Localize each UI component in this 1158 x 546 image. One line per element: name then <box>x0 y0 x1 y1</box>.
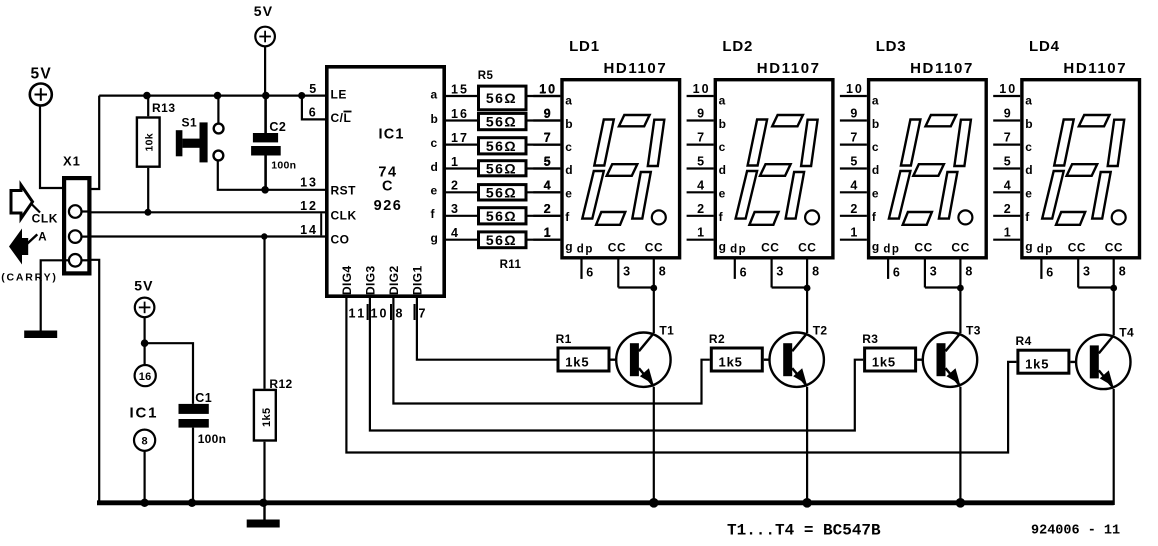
svg-text:b: b <box>431 112 439 126</box>
svg-text:R5: R5 <box>478 70 494 82</box>
svg-text:5V: 5V <box>31 66 52 83</box>
svg-text:R13: R13 <box>152 101 176 115</box>
svg-text:10k: 10k <box>144 133 156 151</box>
svg-text:56Ω: 56Ω <box>486 184 517 200</box>
svg-text:T1...T4 = BC547B: T1...T4 = BC547B <box>727 522 881 540</box>
svg-text:926: 926 <box>374 198 403 214</box>
svg-text:924006 - 11: 924006 - 11 <box>1031 524 1120 539</box>
svg-text:DIG1: DIG1 <box>410 265 424 295</box>
svg-text:c: c <box>431 136 438 150</box>
svg-text:T1: T1 <box>659 324 674 338</box>
svg-text:56Ω: 56Ω <box>486 138 517 154</box>
svg-text:f: f <box>431 207 436 221</box>
svg-text:LD1: LD1 <box>569 38 600 55</box>
svg-text:RST: RST <box>331 184 357 198</box>
svg-text:e: e <box>431 184 438 198</box>
svg-text:C: C <box>382 179 394 195</box>
svg-text:A: A <box>38 232 47 244</box>
svg-text:CO: CO <box>331 233 350 247</box>
svg-text:T2: T2 <box>813 324 828 338</box>
svg-text:8: 8 <box>396 307 404 321</box>
svg-text:10: 10 <box>371 307 389 321</box>
svg-text:R11: R11 <box>500 259 522 271</box>
svg-text:T4: T4 <box>1119 326 1134 340</box>
svg-text:R3: R3 <box>862 332 878 346</box>
svg-text:100n: 100n <box>271 160 296 172</box>
svg-text:S1: S1 <box>182 116 198 130</box>
svg-text:R4: R4 <box>1016 334 1032 348</box>
svg-text:5V: 5V <box>134 278 154 294</box>
svg-text:5: 5 <box>309 82 317 96</box>
svg-text:DIG3: DIG3 <box>363 265 377 295</box>
svg-text:13: 13 <box>300 176 318 190</box>
svg-text:16: 16 <box>139 371 152 383</box>
svg-text:1k5: 1k5 <box>261 407 273 427</box>
svg-text:IC1: IC1 <box>130 405 159 422</box>
svg-text:56Ω: 56Ω <box>486 114 517 130</box>
svg-text:12: 12 <box>300 199 318 213</box>
svg-text:a: a <box>431 87 438 101</box>
svg-text:56Ω: 56Ω <box>486 232 517 248</box>
svg-text:CLK: CLK <box>331 209 357 223</box>
svg-text:17: 17 <box>451 131 469 145</box>
svg-text:R2: R2 <box>709 332 725 346</box>
svg-text:CLK: CLK <box>32 212 58 226</box>
svg-text:X1: X1 <box>63 154 81 169</box>
svg-text:LD3: LD3 <box>876 38 907 55</box>
svg-text:56Ω: 56Ω <box>486 208 517 224</box>
svg-text:LE: LE <box>331 88 347 102</box>
svg-text:8: 8 <box>142 436 148 448</box>
svg-text:T3: T3 <box>966 324 981 338</box>
svg-text:R12: R12 <box>269 377 292 391</box>
svg-text:100n: 100n <box>198 432 227 446</box>
svg-text:16: 16 <box>451 107 469 121</box>
svg-text:IC1: IC1 <box>379 127 405 143</box>
svg-text:56Ω: 56Ω <box>486 160 517 176</box>
svg-text:g: g <box>431 231 439 245</box>
svg-text:3: 3 <box>451 202 460 216</box>
svg-text:15: 15 <box>451 82 469 96</box>
svg-text:d: d <box>431 160 439 174</box>
svg-text:C1: C1 <box>195 391 212 405</box>
svg-text:C/L: C/L <box>331 111 352 125</box>
svg-text:1: 1 <box>451 155 460 169</box>
svg-text:56Ω: 56Ω <box>486 90 517 106</box>
svg-text:LD4: LD4 <box>1029 38 1060 55</box>
svg-text:LD2: LD2 <box>722 38 753 55</box>
svg-text:6: 6 <box>309 106 317 120</box>
svg-text:C2: C2 <box>269 120 286 134</box>
svg-text:14: 14 <box>300 223 318 237</box>
svg-text:R1: R1 <box>556 332 572 346</box>
svg-text:4: 4 <box>451 226 460 240</box>
svg-text:DIG2: DIG2 <box>387 265 401 295</box>
svg-text:7: 7 <box>419 307 427 321</box>
svg-text:11: 11 <box>349 307 367 321</box>
svg-text:DIG4: DIG4 <box>340 265 354 295</box>
svg-text:5V: 5V <box>254 3 274 19</box>
svg-text:2: 2 <box>451 179 460 193</box>
svg-text:(CARRY): (CARRY) <box>1 272 58 284</box>
